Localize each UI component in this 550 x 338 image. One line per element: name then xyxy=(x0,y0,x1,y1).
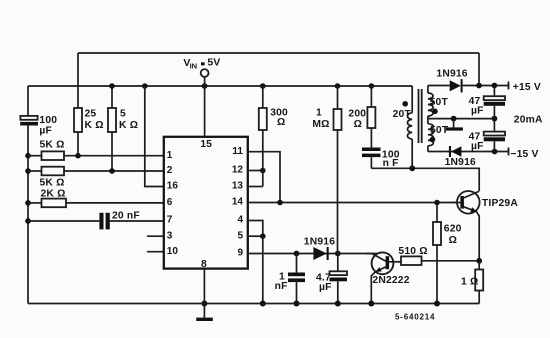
label 300 Ohm xyxy=(270,107,288,128)
svg-text:µF: µF xyxy=(471,106,484,117)
label 620 Ohm xyxy=(444,224,462,247)
label 1N916 mid xyxy=(304,236,335,247)
svg-text:nF: nF xyxy=(275,281,288,292)
node bus-5K junction xyxy=(109,83,115,89)
svg-text:1 Ω: 1 Ω xyxy=(461,277,478,288)
resistor 2K xyxy=(28,199,164,208)
ground center tap xyxy=(446,119,463,131)
wire top feedback line xyxy=(78,52,479,54)
svg-text:8: 8 xyxy=(201,259,207,270)
label TIP29A xyxy=(482,198,518,209)
capacitor 100 uF xyxy=(20,116,38,126)
label 20mA xyxy=(514,114,543,125)
wire pin12 row xyxy=(248,168,266,174)
resistor 300 Ohm xyxy=(259,86,267,187)
svg-text:13: 13 xyxy=(232,181,244,192)
svg-text:14: 14 xyxy=(232,197,244,208)
svg-text:5K Ω: 5K Ω xyxy=(40,178,65,189)
label 50T top xyxy=(430,97,449,108)
capacitor 100 nF xyxy=(362,148,381,169)
svg-text:K Ω: K Ω xyxy=(85,120,104,131)
svg-text:5: 5 xyxy=(120,109,126,120)
label 1N916 top xyxy=(436,68,467,79)
svg-text:5-640214: 5-640214 xyxy=(395,313,435,322)
svg-text:1N916: 1N916 xyxy=(304,236,335,247)
label 5K row1 xyxy=(40,140,65,151)
wire pin11 row with jog xyxy=(248,152,280,203)
svg-text:20T: 20T xyxy=(393,109,412,120)
label 25 KOhm xyxy=(85,109,104,132)
label 20 nF xyxy=(112,210,140,221)
resistor 5K row2 xyxy=(28,167,164,176)
terminal tick +15V xyxy=(508,82,510,90)
svg-text:12: 12 xyxy=(232,165,244,176)
wire +15V rail xyxy=(428,83,509,89)
label 47 uF bottom xyxy=(469,132,484,152)
pin number 8 xyxy=(201,259,207,270)
wire pin16 column xyxy=(145,86,164,187)
wire center tap xyxy=(428,116,497,122)
svg-text:Ω: Ω xyxy=(354,119,362,130)
svg-text:10: 10 xyxy=(167,246,179,257)
transformer phasing dot primary xyxy=(402,101,408,107)
svg-text:−15 V: −15 V xyxy=(510,149,538,160)
resistor 5K vertical xyxy=(108,86,116,171)
label 5 KOhm xyxy=(119,109,138,132)
svg-text:2K Ω: 2K Ω xyxy=(41,189,66,200)
svg-text:n F: n F xyxy=(383,158,399,169)
capacitor 47 uF top xyxy=(484,86,505,119)
label 200 Ohm xyxy=(348,108,366,130)
label 47 uF top xyxy=(469,96,484,116)
node bus-1M junction xyxy=(335,83,341,89)
wire feedback left drop to 25K xyxy=(77,53,79,108)
node bus-pin16 junction xyxy=(142,83,148,89)
label 50T bottom xyxy=(430,125,449,136)
label VIN = 5V xyxy=(183,57,220,71)
op-amp U1 IC box xyxy=(164,137,248,269)
wire left rail xyxy=(27,86,29,304)
transformer T1 primary 20T xyxy=(407,86,412,168)
svg-text:50T: 50T xyxy=(430,97,449,108)
label 1N916 bottom xyxy=(445,157,476,168)
pin numbers right column xyxy=(232,146,244,259)
svg-text:K Ω: K Ω xyxy=(119,120,138,131)
svg-text:1N916: 1N916 xyxy=(436,68,467,79)
label drawing number xyxy=(395,313,435,322)
svg-text:5V: 5V xyxy=(207,57,220,69)
svg-text:15: 15 xyxy=(200,139,212,150)
diode 1N916 top xyxy=(450,79,463,92)
label 2N2222 xyxy=(372,275,409,286)
resistor 510 Ohm xyxy=(401,256,482,265)
transformer phasing dot secondary bottom xyxy=(430,137,436,143)
svg-text:6: 6 xyxy=(167,197,173,208)
svg-text:1: 1 xyxy=(167,150,173,161)
wire pin9 row xyxy=(248,251,385,257)
label 100 uF xyxy=(39,115,57,137)
resistor 5K row1 xyxy=(28,151,164,160)
svg-text:µF: µF xyxy=(319,282,332,293)
node rail-pin2 junction xyxy=(25,168,31,174)
svg-text:7: 7 xyxy=(167,215,173,226)
svg-text:µF: µF xyxy=(471,141,484,152)
resistor 1 Ohm xyxy=(475,261,483,304)
transistor Q2 2N2222 xyxy=(365,252,401,306)
resistor 200 Ohm xyxy=(367,86,375,148)
svg-text:Ω: Ω xyxy=(277,117,285,128)
wire pin14 row to TIP29A base xyxy=(248,200,461,206)
wire pin10 stub xyxy=(147,251,164,253)
wire -15V rail xyxy=(428,149,509,155)
label 2K Ohm xyxy=(41,189,66,200)
svg-text:1: 1 xyxy=(316,107,322,118)
node bus-VIN junction xyxy=(202,83,208,89)
label 1 Ohm xyxy=(461,277,478,288)
node 5K to pin2 xyxy=(109,168,115,174)
label 20T xyxy=(393,109,412,120)
svg-text:1N916: 1N916 xyxy=(445,157,476,168)
svg-text:9: 9 xyxy=(237,248,243,259)
resistor 1 MOhm xyxy=(334,86,342,254)
transformer phasing dot secondary top xyxy=(432,109,438,115)
transistor Q1 TIP29A xyxy=(452,191,480,261)
wire pins 4-5 down to ground bus xyxy=(260,236,266,306)
svg-text:MΩ: MΩ xyxy=(312,119,329,130)
node bus-200 junction xyxy=(369,83,375,89)
svg-text:2N2222: 2N2222 xyxy=(372,275,409,286)
resistor 620 Ohm xyxy=(433,203,441,307)
node rail-pin6 junction xyxy=(25,200,31,206)
svg-text:16: 16 xyxy=(167,181,179,192)
capacitor 4.7 uF xyxy=(330,254,348,307)
wire bottom bus xyxy=(28,303,479,305)
svg-text:200: 200 xyxy=(348,108,366,119)
svg-text:20mA: 20mA xyxy=(514,114,543,125)
node 25K to pin1 xyxy=(75,153,81,159)
node bus-300 junction xyxy=(260,83,266,89)
svg-text:620: 620 xyxy=(444,224,462,235)
wire pin13 row xyxy=(248,186,263,188)
svg-text:3: 3 xyxy=(167,230,173,241)
svg-text:25: 25 xyxy=(85,109,97,120)
node rail-pin1 junction xyxy=(25,153,31,159)
svg-text:510 Ω: 510 Ω xyxy=(398,246,427,257)
label +15 V xyxy=(513,82,541,93)
capacitor 1 nF xyxy=(288,254,305,307)
svg-text:Ω: Ω xyxy=(449,235,457,246)
label 100 nF xyxy=(382,149,400,168)
wire pin4 row with jog xyxy=(248,221,263,237)
transformer secondary 50T+50T xyxy=(428,86,434,152)
wire 100nF bottom to TIP collector xyxy=(371,165,479,191)
wire pin3 stub xyxy=(147,235,164,237)
svg-text:100: 100 xyxy=(39,115,57,126)
svg-text:IN: IN xyxy=(190,61,198,70)
wire pin8 to ground xyxy=(201,269,207,307)
capacitor 47 uF bottom xyxy=(484,119,505,152)
node rail-pin7 junction xyxy=(25,218,31,224)
svg-text:5: 5 xyxy=(237,230,243,241)
resistor 25K xyxy=(74,108,82,156)
wire feedback right drop to +15V rail xyxy=(478,53,480,86)
label -15 V xyxy=(510,149,538,160)
wire top supply bus xyxy=(28,85,412,87)
label 5K row2 xyxy=(40,178,65,189)
pin number 15 xyxy=(200,139,212,150)
ground main xyxy=(196,304,213,322)
label 1 nF xyxy=(275,272,288,293)
transformer core xyxy=(419,89,422,143)
label 4.7 uF xyxy=(316,272,332,293)
label 1 MOhm xyxy=(312,107,329,129)
svg-text:11: 11 xyxy=(232,146,243,157)
svg-text:2: 2 xyxy=(167,165,173,176)
terminal VIN circle xyxy=(201,69,209,137)
wire pin5 row xyxy=(248,233,266,239)
diode 1N916 bottom xyxy=(449,146,462,157)
svg-text:µF: µF xyxy=(39,126,52,137)
svg-text:5K Ω: 5K Ω xyxy=(40,140,65,151)
svg-text:TIP29A: TIP29A xyxy=(482,198,518,209)
pin numbers left column xyxy=(167,150,179,257)
diode 1N916 mid xyxy=(313,247,328,260)
label 510 Ohm xyxy=(398,246,427,257)
capacitor 20 nF xyxy=(28,213,164,230)
svg-text:+15 V: +15 V xyxy=(513,82,541,93)
svg-text:20 nF: 20 nF xyxy=(112,210,140,221)
svg-text:4: 4 xyxy=(237,215,243,226)
terminal tick -15V xyxy=(508,148,510,156)
